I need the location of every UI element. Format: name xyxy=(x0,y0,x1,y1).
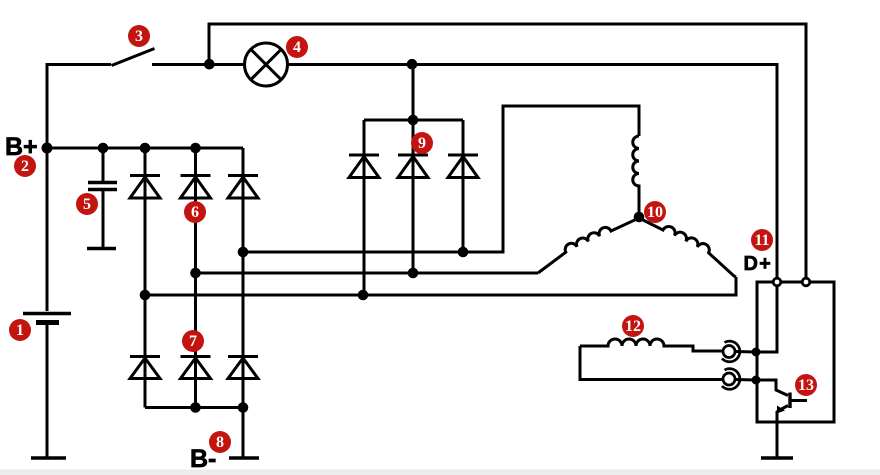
node phase2 trio xyxy=(408,268,419,279)
diode D9 (trio) right xyxy=(448,155,478,178)
wire trio right column xyxy=(462,120,465,252)
svg-text:11: 11 xyxy=(754,232,769,249)
wire column B xyxy=(194,148,197,408)
slip ring upper xyxy=(722,341,756,362)
callout 3 xyxy=(128,25,150,47)
node capacitor tap xyxy=(98,143,109,154)
node trio bus xyxy=(408,115,419,126)
wire switch to lamp xyxy=(152,63,246,66)
wire B+ bus xyxy=(47,147,243,150)
capacitor C 5 xyxy=(102,148,105,181)
diode D7 (trio) left xyxy=(349,155,379,178)
node bottom bus B xyxy=(190,402,201,413)
callout 1 xyxy=(9,319,31,341)
svg-text:4: 4 xyxy=(293,39,301,56)
node diode column B xyxy=(190,143,201,154)
diode D2 (group 6) column B xyxy=(181,176,211,199)
B- terminal 8 xyxy=(242,408,245,458)
svg-text:8: 8 xyxy=(216,434,224,451)
wire bottom bus xyxy=(145,406,243,409)
battery 1 xyxy=(23,148,71,457)
wire column C xyxy=(242,148,245,457)
diode D5 (group 7) column B xyxy=(181,357,211,379)
transistor Q 13 xyxy=(757,380,807,457)
callout 12 xyxy=(622,315,644,337)
svg-text:3: 3 xyxy=(135,28,143,45)
node brush upper xyxy=(752,348,761,357)
callout 8 xyxy=(209,431,231,453)
wire switch input xyxy=(47,65,111,149)
svg-text:10: 10 xyxy=(647,204,663,221)
switch S 3 xyxy=(112,49,155,66)
wire phase 2 xyxy=(196,272,539,275)
wire column A xyxy=(144,148,147,408)
regulator box xyxy=(757,282,834,422)
node phase3 column A xyxy=(140,290,151,301)
diode D4 (group 7) column A xyxy=(130,357,160,379)
node phase1 column C xyxy=(238,247,249,258)
node phase1 trio xyxy=(458,247,469,258)
callout 7 xyxy=(182,330,204,352)
callout 10 xyxy=(644,201,666,223)
stator winding vertical (10) xyxy=(633,136,639,217)
node phase3 trio xyxy=(358,290,369,301)
bottom page edge band xyxy=(0,470,880,475)
stator winding right xyxy=(639,218,736,277)
diode D6 (group 7) column C xyxy=(228,357,258,379)
ground regulator xyxy=(761,456,793,460)
svg-text:1: 1 xyxy=(16,322,24,339)
svg-text:9: 9 xyxy=(418,135,426,152)
diode trio bus 9 xyxy=(364,119,463,122)
node phase2 column B xyxy=(190,268,201,279)
wire field return xyxy=(580,346,723,380)
svg-text:D+: D+ xyxy=(744,253,773,275)
wire top bypass xyxy=(209,24,806,279)
field winding 12 xyxy=(580,339,723,351)
stator winding left xyxy=(538,218,639,273)
callout 4 xyxy=(286,36,308,58)
svg-text:5: 5 xyxy=(83,196,91,213)
callout 13 xyxy=(795,374,817,396)
lamp L 4 xyxy=(245,43,288,86)
svg-text:12: 12 xyxy=(625,318,641,335)
svg-text:13: 13 xyxy=(798,377,814,394)
diode D3 (group 6) column C xyxy=(228,176,258,199)
terminal B+ direct xyxy=(802,278,810,286)
svg-text:6: 6 xyxy=(191,204,199,221)
node star point 10 xyxy=(634,212,645,223)
wire trio left column xyxy=(363,120,366,295)
wire phase 3 xyxy=(145,277,736,295)
callout 9 xyxy=(411,132,433,154)
node brush lower xyxy=(752,376,761,385)
slip ring lower xyxy=(722,369,756,390)
svg-text:2: 2 xyxy=(21,158,29,175)
node diode column A xyxy=(140,143,151,154)
wire lamp to D+ terminal xyxy=(288,65,778,280)
callout 6 xyxy=(184,201,206,223)
callout 11 xyxy=(751,229,773,251)
svg-text:7: 7 xyxy=(189,333,197,350)
node junction lamp/top xyxy=(204,59,215,70)
callout 2 xyxy=(14,155,36,177)
node junction lamp/trio xyxy=(407,59,418,70)
wire regulator internal xyxy=(757,286,777,352)
diode D1 (group 6) column A xyxy=(130,176,160,199)
terminal D+ lamp xyxy=(773,278,781,286)
diode D8 (trio) middle xyxy=(398,155,428,178)
node B+ 2 xyxy=(42,143,53,154)
ground battery xyxy=(31,456,66,460)
callout 5 xyxy=(76,193,98,215)
wire trio middle column xyxy=(412,65,415,274)
node bottom bus C xyxy=(238,402,249,413)
wire phase 1 xyxy=(243,106,639,252)
